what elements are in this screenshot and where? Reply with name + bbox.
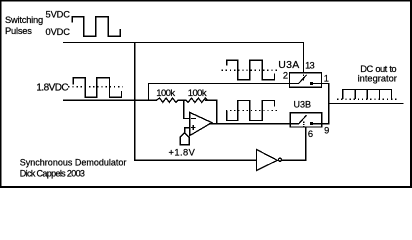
svg-text:+1.8V: +1.8V — [169, 147, 196, 157]
svg-text:5VDC: 5VDC — [46, 10, 71, 20]
svg-text:100k: 100k — [188, 88, 207, 99]
svg-text:0VDC: 0VDC — [46, 27, 71, 37]
svg-text:DC out to: DC out to — [360, 64, 396, 74]
svg-text:Pulses: Pulses — [5, 26, 32, 36]
svg-text:2: 2 — [283, 70, 288, 80]
svg-text:Synchronous Demodulator: Synchronous Demodulator — [20, 158, 127, 168]
svg-text:1: 1 — [324, 74, 329, 84]
svg-text:Switching: Switching — [5, 15, 43, 25]
svg-text:100k: 100k — [156, 88, 175, 99]
svg-text:integrator: integrator — [358, 74, 397, 84]
svg-text:9: 9 — [324, 126, 329, 136]
svg-text:13: 13 — [305, 61, 314, 71]
svg-text:U3B: U3B — [294, 99, 312, 109]
svg-text:6: 6 — [308, 129, 313, 139]
svg-text:U3A: U3A — [278, 59, 299, 71]
svg-text:1.8VDC: 1.8VDC — [36, 83, 68, 94]
svg-text:Dick Cappels 2003: Dick Cappels 2003 — [20, 169, 85, 179]
